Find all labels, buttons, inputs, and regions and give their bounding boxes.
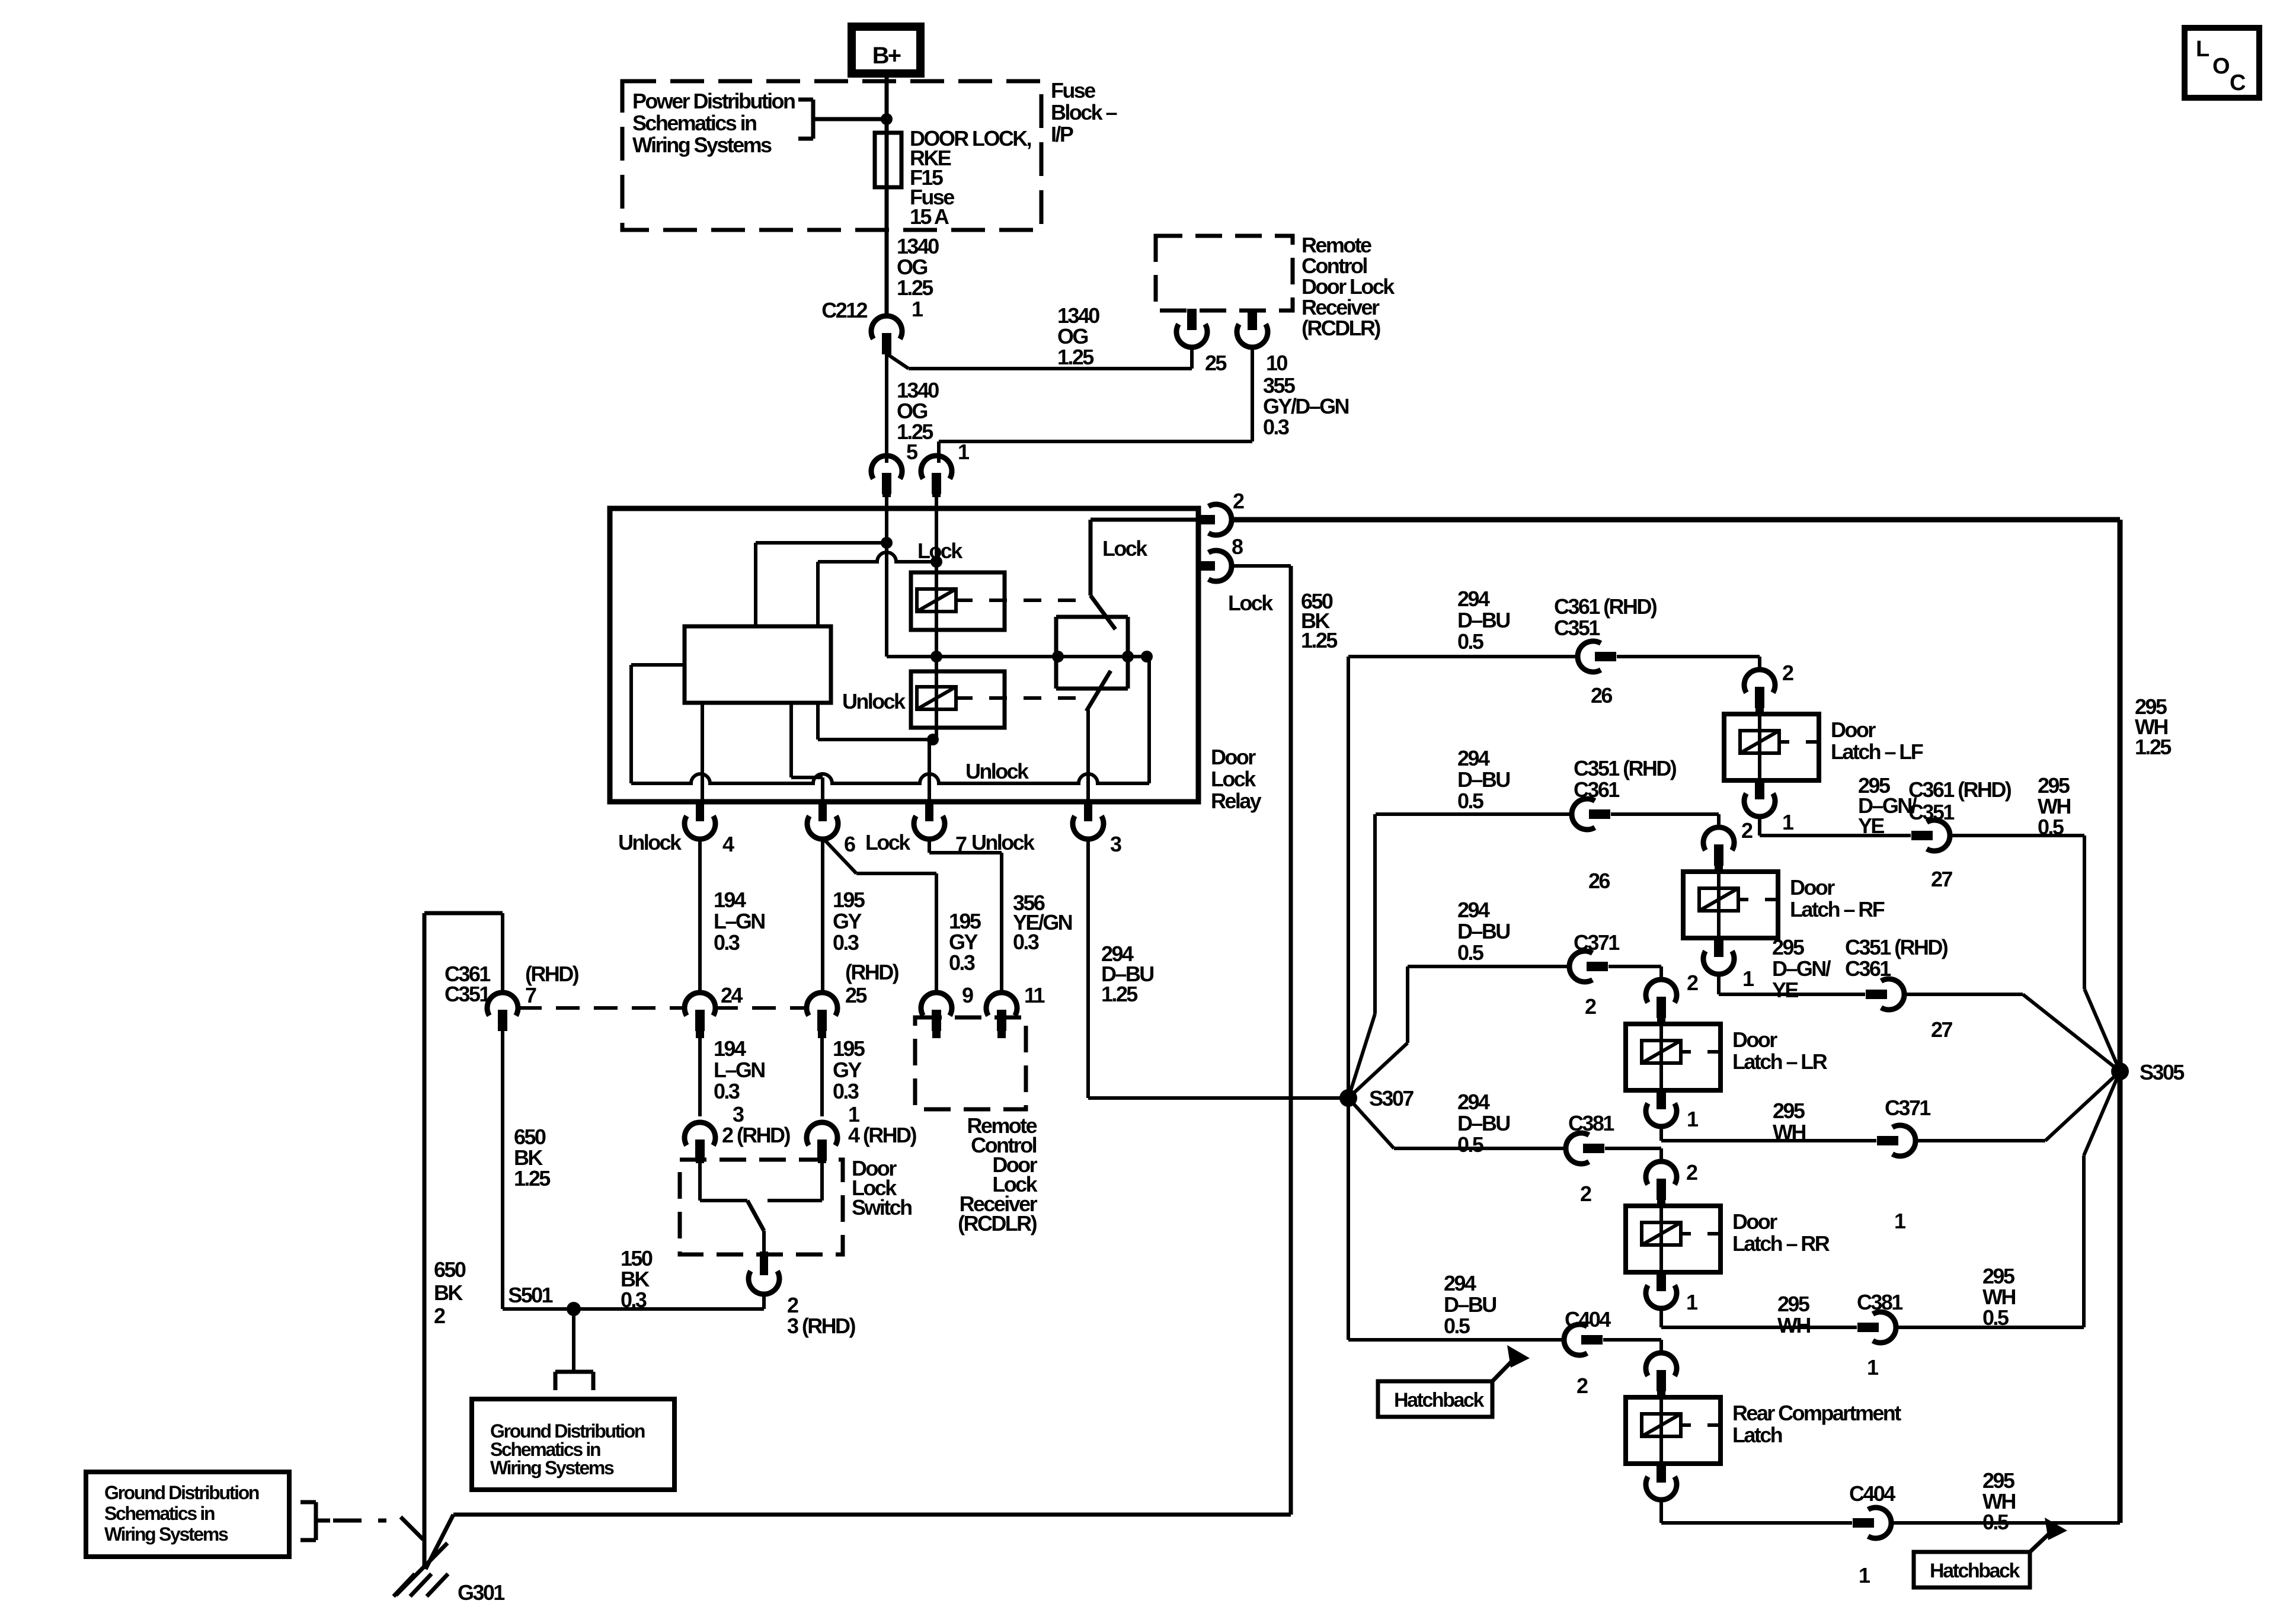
svg-text:294: 294 [1457,746,1490,770]
svg-text:1: 1 [1687,1107,1699,1131]
svg-text:2: 2 [1585,994,1596,1019]
svg-text:(RCDLR): (RCDLR) [1302,316,1380,340]
svg-text:C371: C371 [1885,1096,1931,1120]
svg-text:194: 194 [714,888,746,912]
svg-text:D–BU: D–BU [1457,608,1510,632]
svg-text:YE: YE [1858,814,1884,838]
svg-text:Lock: Lock [865,830,911,854]
svg-text:Power Distribution: Power Distribution [632,89,795,113]
svg-text:Latch – RF: Latch – RF [1790,897,1885,921]
svg-text:27: 27 [1931,1017,1952,1042]
svg-text:1: 1 [1742,966,1754,991]
svg-text:1: 1 [958,440,970,464]
svg-text:2: 2 [434,1304,445,1328]
svg-text:Latch – RR: Latch – RR [1732,1231,1830,1256]
svg-text:650: 650 [434,1257,466,1282]
svg-text:Relay: Relay [1211,789,1262,813]
svg-text:Latch – LR: Latch – LR [1732,1049,1828,1074]
svg-text:0.5: 0.5 [2038,815,2064,839]
svg-text:Lock: Lock [1211,767,1256,791]
svg-text:C351: C351 [445,982,491,1006]
svg-text:Door: Door [1211,745,1256,769]
svg-text:1: 1 [1686,1290,1698,1314]
svg-text:S305: S305 [2140,1060,2185,1084]
svg-text:D–GN/: D–GN/ [1772,956,1831,981]
svg-text:15 A: 15 A [910,204,949,229]
svg-text:Unlock: Unlock [965,759,1029,783]
svg-text:1.25: 1.25 [514,1166,551,1190]
svg-text:11: 11 [1024,983,1045,1007]
svg-text:194: 194 [714,1036,746,1061]
svg-text:L–GN: L–GN [714,1058,765,1082]
svg-text:26: 26 [1588,869,1610,893]
svg-text:Schematics in: Schematics in [632,111,756,135]
svg-text:Latch: Latch [1732,1423,1782,1447]
svg-text:1: 1 [912,297,923,321]
svg-text:1.25: 1.25 [2135,735,2172,759]
svg-text:0.5: 0.5 [1457,1132,1484,1157]
svg-text:294: 294 [1457,898,1490,922]
svg-text:Wiring Systems: Wiring Systems [104,1523,228,1545]
svg-text:0.3: 0.3 [833,930,859,955]
svg-text:(RCDLR): (RCDLR) [958,1211,1037,1235]
svg-text:10: 10 [1266,351,1287,375]
svg-text:1.25: 1.25 [1301,628,1338,652]
svg-text:D–BU: D–BU [1457,767,1510,792]
svg-text:0.3: 0.3 [621,1288,647,1312]
svg-text:294: 294 [1457,1090,1490,1114]
svg-text:9: 9 [962,983,973,1007]
svg-text:4: 4 [722,832,734,856]
svg-text:C351: C351 [1554,616,1600,640]
svg-text:D–BU: D–BU [1444,1292,1496,1317]
svg-text:Door: Door [1732,1209,1777,1234]
svg-text:I/P: I/P [1051,122,1073,146]
svg-text:294: 294 [1444,1271,1476,1295]
svg-text:GY: GY [833,1058,862,1082]
svg-text:Lock: Lock [917,539,963,563]
svg-text:26: 26 [1591,683,1612,708]
svg-text:295: 295 [1772,935,1805,959]
svg-text:WH: WH [1773,1120,1805,1144]
svg-text:C351 (RHD): C351 (RHD) [1574,756,1677,780]
svg-text:4 (RHD): 4 (RHD) [848,1123,916,1147]
svg-text:25: 25 [845,983,867,1007]
svg-text:D–BU: D–BU [1457,1111,1510,1135]
svg-text:0.3: 0.3 [949,950,975,975]
svg-text:195: 195 [833,888,865,912]
svg-text:(RHD): (RHD) [845,960,899,984]
svg-text:3 (RHD): 3 (RHD) [787,1314,855,1338]
svg-text:Schematics in: Schematics in [104,1503,215,1524]
svg-text:BK: BK [434,1281,463,1305]
svg-text:0.5: 0.5 [1982,1305,2009,1330]
svg-text:D–BU: D–BU [1457,919,1510,943]
svg-text:0.5: 0.5 [1982,1510,2009,1534]
svg-text:0.5: 0.5 [1457,789,1484,813]
svg-text:5: 5 [906,440,918,464]
svg-text:8: 8 [1232,534,1243,559]
svg-text:Lock: Lock [1102,536,1148,561]
svg-text:C404: C404 [1849,1481,1895,1506]
svg-text:Latch – LF: Latch – LF [1831,740,1923,764]
svg-text:C351: C351 [1908,800,1955,824]
svg-text:C361: C361 [1574,777,1620,802]
svg-text:Door: Door [1790,875,1835,900]
svg-text:O: O [2212,54,2229,79]
svg-text:0.3: 0.3 [714,930,740,955]
svg-text:0.3: 0.3 [833,1079,859,1103]
svg-text:L: L [2196,37,2209,62]
svg-text:1: 1 [1859,1563,1870,1587]
svg-text:2: 2 [1233,489,1244,513]
svg-text:Wiring Systems: Wiring Systems [632,133,772,157]
svg-text:1.25: 1.25 [1057,345,1094,369]
svg-text:Door: Door [1831,718,1876,742]
svg-text:Hatchback: Hatchback [1394,1389,1484,1411]
svg-text:2: 2 [1576,1374,1588,1398]
svg-text:195: 195 [833,1036,865,1061]
svg-text:1.25: 1.25 [1101,982,1138,1006]
svg-text:C361 (RHD): C361 (RHD) [1554,594,1657,619]
svg-text:S307: S307 [1369,1086,1414,1110]
svg-text:Unlock: Unlock [618,830,682,854]
svg-text:7: 7 [525,983,536,1007]
svg-text:Unlock: Unlock [971,830,1035,854]
svg-text:WH: WH [1777,1313,1810,1337]
svg-text:C404: C404 [1565,1307,1611,1331]
svg-text:0.5: 0.5 [1457,940,1484,965]
svg-text:1.25: 1.25 [897,276,933,300]
svg-text:L–GN: L–GN [714,909,765,933]
svg-text:2: 2 [1686,1160,1697,1185]
svg-text:0.3: 0.3 [714,1079,740,1103]
svg-text:C381: C381 [1857,1290,1903,1314]
svg-text:C: C [2230,71,2246,95]
svg-text:1: 1 [1894,1209,1906,1233]
svg-text:C381: C381 [1568,1111,1614,1135]
svg-text:Block –: Block – [1051,100,1117,124]
svg-text:B+: B+ [872,43,901,69]
svg-text:C212: C212 [821,298,867,322]
svg-text:2: 2 [1741,818,1753,843]
svg-text:2: 2 [1687,971,1698,995]
svg-text:3: 3 [1110,832,1121,856]
svg-text:2: 2 [1782,661,1793,685]
svg-text:1: 1 [1867,1355,1879,1379]
svg-text:295: 295 [1777,1292,1810,1316]
svg-text:2: 2 [1580,1182,1591,1206]
svg-text:0.5: 0.5 [1457,629,1484,654]
svg-text:27: 27 [1931,867,1952,891]
svg-text:Switch: Switch [852,1195,912,1219]
svg-text:G301: G301 [458,1580,505,1605]
svg-text:Hatchback: Hatchback [1930,1560,2020,1582]
svg-text:C351 (RHD): C351 (RHD) [1845,935,1948,959]
svg-text:C361 (RHD): C361 (RHD) [1908,777,2012,802]
svg-text:Wiring Systems: Wiring Systems [490,1457,614,1478]
svg-text:YE: YE [1772,978,1798,1002]
svg-text:0.5: 0.5 [1444,1314,1470,1338]
svg-text:24: 24 [721,983,743,1007]
svg-text:S501: S501 [508,1283,553,1307]
svg-text:Unlock: Unlock [842,689,906,713]
svg-text:0.3: 0.3 [1013,930,1039,954]
svg-text:294: 294 [1457,587,1490,611]
svg-text:1: 1 [1782,810,1794,834]
svg-text:6: 6 [844,832,855,856]
svg-text:C361: C361 [1845,956,1891,981]
svg-text:Door: Door [1732,1028,1777,1052]
svg-text:0.3: 0.3 [1263,415,1289,439]
svg-text:2 (RHD): 2 (RHD) [722,1123,790,1147]
svg-text:295: 295 [1773,1099,1805,1123]
svg-text:(RHD): (RHD) [525,962,579,986]
svg-text:Ground Distribution: Ground Distribution [104,1482,259,1503]
svg-text:Lock: Lock [1228,591,1274,615]
svg-text:C371: C371 [1574,930,1620,955]
svg-text:25: 25 [1205,351,1227,375]
svg-text:Fuse: Fuse [1051,78,1095,103]
svg-text:GY: GY [833,909,862,933]
svg-text:Rear Compartment: Rear Compartment [1732,1401,1901,1425]
